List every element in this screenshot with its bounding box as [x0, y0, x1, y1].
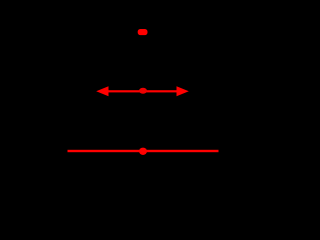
horizontal track line [68, 150, 219, 152]
center dot on arrow [139, 88, 147, 94]
double-headed amplitude arrow [96, 86, 189, 96]
ball on track line [139, 148, 147, 155]
ball at top (displaced mass) [138, 29, 148, 35]
